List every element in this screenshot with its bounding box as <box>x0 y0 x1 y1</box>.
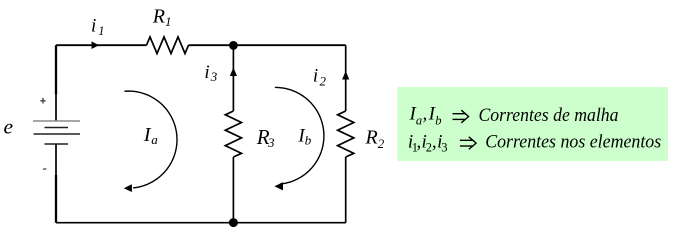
svg-text:e: e <box>4 115 14 139</box>
battery - sign <box>43 168 47 170</box>
battery + sign <box>40 98 45 104</box>
wire left lower (battery to corner) <box>55 144 57 223</box>
arrow i1 <box>92 41 100 49</box>
wire top left (source to R1) <box>56 44 147 46</box>
svg-text:,: , <box>423 104 428 125</box>
mesh current arc Ib <box>275 87 324 184</box>
svg-text:3: 3 <box>267 135 275 150</box>
svg-text:,: , <box>432 131 437 152</box>
node A (top junction dot) <box>229 41 238 50</box>
arrow i3 <box>230 68 237 77</box>
wire left lower terminal stub <box>55 175 57 223</box>
svg-text:i: i <box>313 66 318 87</box>
mesh arrowhead Ia <box>124 184 132 192</box>
wire middle lower (R3 to node B) <box>232 157 234 223</box>
legend line 2: i1,i2,i3 => Correntes nos elementos <box>408 131 448 154</box>
resistor R1 <box>147 37 189 54</box>
legend arrow 1 (=>) <box>453 110 469 123</box>
svg-text:i: i <box>204 62 209 83</box>
svg-text:Correntes nos elementos: Correntes nos elementos <box>485 131 661 152</box>
legend line 1: Ia,Ib => Correntes de malha <box>409 104 442 128</box>
wire bottom <box>56 222 346 224</box>
mesh current arc Ia <box>124 91 177 188</box>
battery e plate 1 (long, gray) <box>33 120 80 122</box>
resistor R2 <box>338 111 354 157</box>
svg-text:i: i <box>91 16 96 37</box>
svg-text:R: R <box>365 127 378 149</box>
wire top right (R1 to node A to top-right corner) <box>189 44 346 46</box>
wire middle upper (node A to R3) <box>232 45 234 111</box>
battery e plate 3 (long) <box>34 133 81 135</box>
svg-text:3: 3 <box>441 141 447 155</box>
resistor R3 <box>225 111 241 157</box>
svg-text:1: 1 <box>165 14 172 29</box>
svg-text:a: a <box>416 113 422 127</box>
highlight box (green) <box>398 87 669 161</box>
wire right upper (corner to R2) <box>345 45 347 111</box>
svg-text:b: b <box>435 113 441 127</box>
node B (bottom junction dot) <box>229 218 238 227</box>
svg-text:Correntes de malha: Correntes de malha <box>479 105 619 126</box>
wire right lower (R2 to corner) <box>345 157 347 223</box>
legend arrow 2 (=>) <box>460 137 476 150</box>
svg-text:2: 2 <box>320 74 327 89</box>
wire left upper terminal stub <box>55 45 57 94</box>
battery e plate 2 (short) <box>45 127 69 129</box>
svg-text:3: 3 <box>210 69 218 84</box>
battery e plate 4 (short) <box>45 143 69 145</box>
svg-text:R: R <box>152 6 165 28</box>
svg-text:a: a <box>151 132 158 147</box>
svg-text:2: 2 <box>378 136 385 151</box>
wire left upper (corner to battery) <box>55 45 57 121</box>
svg-text:b: b <box>305 133 312 148</box>
svg-text:1: 1 <box>98 24 104 38</box>
arrow i2 <box>342 71 349 80</box>
mesh arrowhead Ib <box>274 182 283 190</box>
